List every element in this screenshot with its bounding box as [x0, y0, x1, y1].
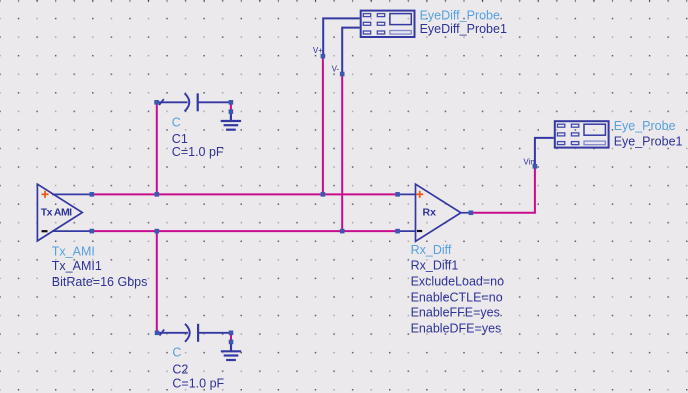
svg-text:Tx AMI: Tx AMI — [41, 207, 72, 219]
svg-text:C: C — [172, 116, 181, 130]
svg-text:Rx: Rx — [423, 206, 437, 218]
svg-text:Tx_AMI: Tx_AMI — [52, 244, 95, 258]
svg-text:V-: V- — [332, 64, 340, 73]
svg-text:Tx_AMI1: Tx_AMI1 — [52, 259, 102, 273]
svg-text:C2: C2 — [172, 363, 188, 377]
svg-text:EnableDFE=yes: EnableDFE=yes — [411, 321, 502, 335]
svg-text:C=1.0 pF: C=1.0 pF — [172, 377, 224, 391]
svg-text:V+: V+ — [313, 46, 323, 55]
svg-text:EyeDiff_Probe1: EyeDiff_Probe1 — [420, 22, 507, 36]
svg-text:EyeDiff_Probe: EyeDiff_Probe — [420, 8, 500, 22]
svg-text:Vin: Vin — [523, 158, 534, 167]
svg-text:EnableFFE=yes: EnableFFE=yes — [411, 306, 500, 320]
svg-text:Eye_Probe1: Eye_Probe1 — [614, 134, 683, 148]
svg-text:C: C — [172, 346, 181, 360]
svg-text:BitRate=16 Gbps: BitRate=16 Gbps — [52, 275, 148, 289]
svg-text:C=1.0 pF: C=1.0 pF — [172, 145, 224, 159]
svg-text:C1: C1 — [172, 132, 188, 146]
svg-text:EnableCTLE=no: EnableCTLE=no — [411, 290, 503, 304]
svg-text:Eye_Probe: Eye_Probe — [614, 119, 676, 133]
svg-text:Rx_Diff1: Rx_Diff1 — [411, 258, 459, 272]
svg-text:Rx_Diff: Rx_Diff — [411, 243, 452, 257]
svg-text:ExcludeLoad=no: ExcludeLoad=no — [411, 274, 505, 288]
